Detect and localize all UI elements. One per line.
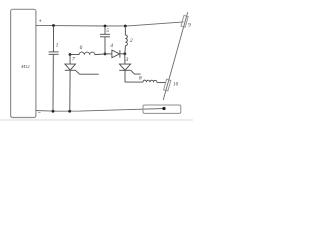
svg-text:4: 4 bbox=[110, 43, 113, 49]
svg-text:9: 9 bbox=[188, 23, 191, 29]
capacitor C5 bbox=[100, 26, 110, 54]
svg-text:7: 7 bbox=[72, 57, 75, 63]
node: mid wire / SCR7 anode bbox=[69, 53, 72, 56]
faint bottom rule bbox=[0, 119, 193, 121]
svg-text:1: 1 bbox=[56, 42, 59, 48]
svg-text:2: 2 bbox=[130, 38, 133, 44]
diagonal trigger line bbox=[163, 12, 188, 100]
inductor L6 bbox=[70, 52, 105, 55]
thyristor SCR3 bbox=[119, 54, 143, 82]
svg-text:8: 8 bbox=[139, 76, 142, 82]
svg-text:+: + bbox=[39, 19, 42, 25]
svg-text:6: 6 bbox=[80, 45, 83, 51]
diode D4 bbox=[105, 50, 125, 58]
node: electrode dot in housing bbox=[162, 107, 165, 110]
node: bottom rail / C1 bbox=[52, 110, 55, 113]
inductor L2 bbox=[125, 26, 127, 54]
lamp housing box bbox=[143, 105, 181, 113]
node: top rail / C1 bbox=[52, 24, 55, 27]
svg-text:10: 10 bbox=[173, 82, 179, 88]
power source block M12 bbox=[11, 9, 36, 117]
node: mid wire / D4-L2-SCR3 bbox=[123, 52, 126, 55]
node: top rail / L2 bbox=[124, 25, 127, 28]
svg-text:5: 5 bbox=[106, 28, 109, 34]
capacitor C1 bbox=[49, 26, 59, 112]
node: mid wire / C5 bottom bbox=[104, 53, 107, 56]
wire: top rail bbox=[36, 22, 184, 26]
thyristor SCR7 bbox=[65, 55, 99, 112]
svg-text:M12: M12 bbox=[20, 64, 30, 69]
node: bottom rail / SCR7 cathode bbox=[68, 110, 71, 113]
inductor L8 bbox=[143, 80, 166, 82]
wire: bottom rail bbox=[36, 109, 164, 112]
svg-text:3: 3 bbox=[125, 57, 129, 63]
resistor 10 (tilted box on diagonal) bbox=[164, 79, 171, 91]
resistor 9 (tilted box on diagonal) bbox=[181, 15, 188, 27]
node: top rail / C5 bbox=[104, 25, 107, 28]
